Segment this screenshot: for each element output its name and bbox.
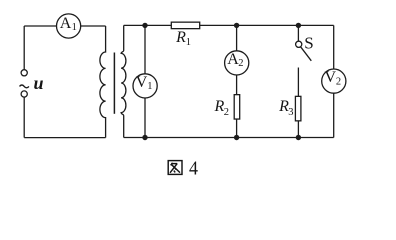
wire left vertical upper	[23, 26, 25, 69]
wire top rail R1 to V2 corner	[200, 24, 334, 26]
switch S pivot	[296, 41, 302, 47]
svg-text:1: 1	[147, 81, 152, 92]
AC source tilde	[20, 85, 29, 88]
ammeter A2	[225, 51, 249, 75]
wire V2 lower	[333, 93, 335, 137]
caption character tu (figure)	[168, 161, 182, 175]
wire bottom rail	[124, 137, 334, 139]
transformer secondary coil	[121, 25, 126, 137]
AC source u terminal lower	[21, 91, 27, 97]
wire top rail left of R1	[124, 24, 172, 26]
resistor R1	[171, 22, 199, 29]
svg-text:V: V	[136, 74, 148, 91]
label R2	[214, 98, 230, 118]
switch S blade	[301, 47, 311, 61]
node bottom V1	[142, 135, 147, 140]
resistor R2	[234, 95, 240, 119]
wire S lower contact	[297, 68, 299, 97]
wire R2 lower	[236, 119, 238, 138]
label R1	[175, 29, 191, 48]
wire V2 upper	[333, 25, 335, 69]
svg-text:3: 3	[288, 107, 293, 118]
svg-text:A: A	[60, 15, 72, 32]
wire top-left segment	[24, 25, 56, 27]
wire V1 lower	[144, 98, 146, 138]
wire R3 lower	[297, 121, 299, 138]
ammeter A1	[57, 14, 81, 38]
wire A2 upper	[236, 25, 238, 50]
wire S upper	[297, 25, 299, 41]
wire A1 to transformer primary	[81, 25, 106, 27]
AC source u terminal upper	[21, 70, 27, 76]
resistor R3	[295, 96, 301, 121]
node top S	[296, 23, 301, 28]
transformer primary coil	[100, 26, 106, 138]
svg-text:4: 4	[189, 158, 198, 180]
svg-text:2: 2	[224, 107, 229, 118]
svg-text:1: 1	[72, 22, 77, 33]
label R3	[278, 98, 293, 118]
wire left vertical lower	[23, 97, 25, 137]
voltmeter V1	[133, 74, 157, 98]
node top A2	[234, 23, 239, 28]
svg-text:R: R	[175, 29, 186, 46]
svg-text:u: u	[34, 73, 44, 93]
transformer core	[113, 53, 115, 114]
svg-text:1: 1	[186, 37, 191, 48]
wire A2 to R2	[236, 75, 238, 95]
svg-text:S: S	[304, 33, 313, 52]
voltmeter V2	[322, 69, 346, 93]
svg-text:2: 2	[238, 58, 243, 69]
svg-text:V: V	[325, 69, 337, 86]
wire bottom of primary loop	[24, 137, 105, 139]
svg-text:2: 2	[336, 77, 341, 88]
node top V1	[142, 23, 147, 28]
wire V1 upper	[144, 25, 146, 73]
node bottom R3	[296, 135, 301, 140]
node bottom R2	[234, 135, 239, 140]
